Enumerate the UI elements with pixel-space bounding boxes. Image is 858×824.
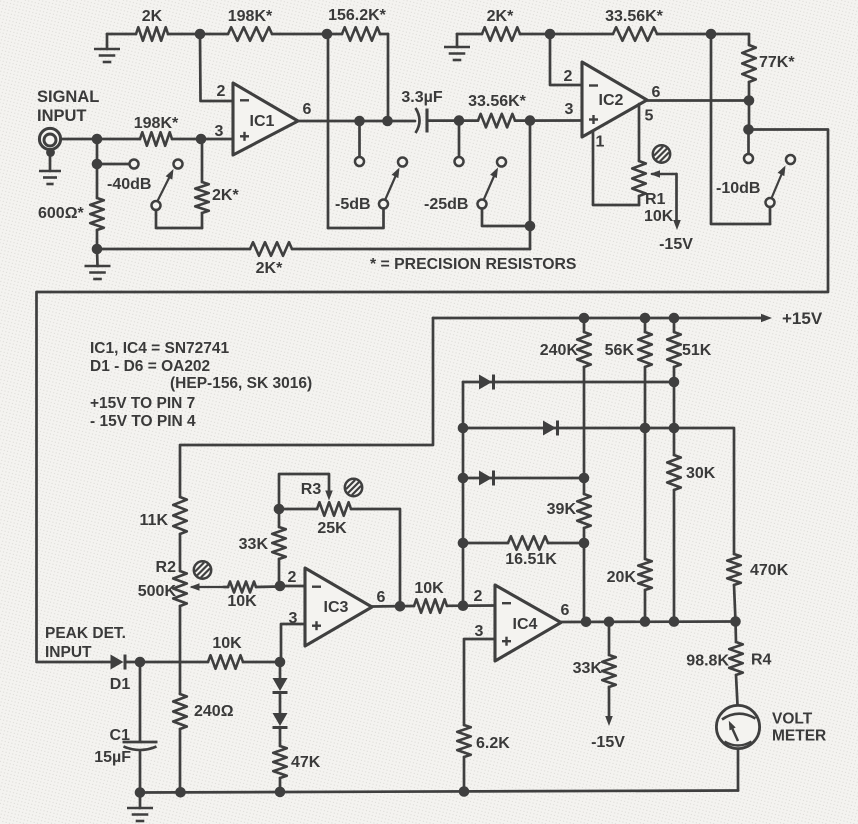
node out/39K	[581, 617, 592, 628]
resistor 10K (R2 wiper)	[224, 582, 280, 611]
node 56K top	[640, 313, 651, 324]
pin 3 label IC3	[289, 610, 298, 627]
label -15V (R1)	[659, 236, 693, 253]
pin 2 label IC4	[474, 588, 483, 605]
wire 11K to R2	[179, 534, 182, 571]
wire R2 to 240ohm	[179, 606, 182, 694]
diode D4	[479, 471, 494, 486]
wire diode ladder column	[462, 382, 465, 606]
ground (600ohm)	[85, 249, 111, 279]
svg-text:56K: 56K	[605, 342, 635, 359]
node row1/51K	[669, 377, 680, 388]
svg-text:R3: R3	[301, 481, 322, 498]
svg-text:33K: 33K	[239, 536, 269, 553]
node IC4 pin2	[458, 600, 469, 611]
svg-text:D1 - D6 = OA202: D1 - D6 = OA202	[90, 358, 210, 375]
svg-text:SIGNAL: SIGNAL	[37, 88, 99, 106]
ground (signal input)	[39, 171, 61, 184]
ground (top-left)	[94, 34, 120, 62]
resistor 33.56K* (signal)	[468, 93, 527, 127]
svg-text:R1: R1	[645, 191, 666, 208]
node row3/240K	[579, 473, 590, 484]
svg-text:198K*: 198K*	[134, 115, 179, 132]
wire IC3 pin 2	[280, 585, 305, 588]
svg-text:PEAK DET.: PEAK DET.	[45, 625, 126, 642]
wire to lower section	[37, 130, 829, 663]
pin 3 label IC2	[565, 101, 574, 118]
wire IC3 pin 3	[281, 624, 305, 662]
svg-text:INPUT: INPUT	[45, 644, 92, 661]
pin 6 label IC3	[377, 589, 386, 606]
switch -25dB	[424, 121, 530, 226]
wire IC1 output row	[298, 120, 415, 123]
svg-text:VOLT: VOLT	[772, 711, 813, 728]
svg-text:240K: 240K	[540, 342, 579, 359]
switch -40dB	[97, 160, 202, 229]
node out/30K	[669, 616, 680, 627]
svg-text:25K: 25K	[317, 520, 347, 537]
svg-text:2K*: 2K*	[212, 187, 239, 204]
svg-text:6.2K: 6.2K	[476, 735, 510, 752]
resistor 51K	[667, 318, 712, 455]
potentiometer R3 25K	[279, 474, 400, 606]
wire 156.2K to IC1 output	[387, 34, 390, 121]
svg-text:IC1, IC4 = SN72741: IC1, IC4 = SN72741	[90, 340, 230, 357]
ground (bottom rail)	[127, 793, 153, 822]
pin 1 label IC2	[596, 134, 605, 151]
node pin3/2K junction	[196, 134, 207, 145]
label PEAK DET INPUT	[45, 625, 126, 661]
svg-text:2: 2	[474, 588, 483, 605]
wire IC3 output	[372, 605, 414, 608]
svg-text:6: 6	[652, 84, 661, 101]
pin 6 label IC1	[303, 101, 312, 118]
svg-text:* = PRECISION RESISTORS: * = PRECISION RESISTORS	[370, 256, 576, 273]
node 240K top	[579, 313, 590, 324]
svg-text:(HEP-156, SK 3016): (HEP-156, SK 3016)	[170, 375, 312, 392]
node 2K/198K junction	[195, 29, 206, 40]
ground (IC2 input)	[444, 34, 470, 60]
svg-text:IC3: IC3	[324, 599, 349, 616]
svg-text:+15V: +15V	[782, 309, 823, 328]
wire top feedback rail	[107, 33, 388, 36]
svg-text:R4: R4	[751, 652, 772, 669]
op-amp IC2	[582, 62, 647, 137]
label SIGNAL INPUT	[37, 88, 99, 125]
svg-text:10K: 10K	[414, 580, 444, 597]
svg-text:-5dB: -5dB	[335, 196, 371, 213]
wire cap to IC2 pin 3	[427, 119, 582, 122]
volt meter	[716, 705, 826, 748]
wire diode row 1	[463, 381, 674, 384]
pin 3 label IC4	[475, 623, 484, 640]
wire meter to rail	[737, 749, 740, 791]
pin 2 label IC2	[564, 68, 573, 85]
svg-text:500K: 500K	[138, 583, 177, 600]
node -25dB loop junction	[525, 221, 536, 232]
svg-text:-10dB: -10dB	[716, 180, 760, 197]
svg-text:1: 1	[596, 134, 605, 151]
node -5dB tap	[354, 116, 365, 127]
node out/33K	[604, 617, 615, 628]
wire IC2 pin 1	[593, 131, 639, 205]
resistor 20K	[607, 559, 652, 622]
pin 6 label IC2	[652, 84, 661, 101]
resistor 2K	[136, 8, 168, 41]
switch -10dB	[716, 130, 795, 225]
op-amp IC4	[495, 585, 561, 661]
node 77K/output junction	[744, 95, 755, 106]
wire IC2 top rail	[457, 33, 749, 36]
svg-text:6: 6	[377, 589, 386, 606]
capacitor 3.3uF	[401, 89, 442, 133]
resistor 2K* (IC2)	[482, 8, 520, 41]
node D1/C1	[135, 657, 146, 668]
wire 6.2K to rail	[463, 757, 466, 792]
resistor 198K* (input)	[134, 115, 179, 146]
resistor 240K	[540, 318, 591, 478]
svg-text:2: 2	[217, 83, 226, 100]
node output/-10dB pendant	[743, 124, 754, 135]
svg-text:470K: 470K	[750, 562, 789, 579]
resistor 600ohm*	[38, 198, 104, 230]
svg-text:30K: 30K	[686, 465, 716, 482]
node -40dB tap	[92, 159, 103, 170]
node 6.2K bottom	[459, 786, 470, 797]
svg-text:3: 3	[565, 101, 574, 118]
wire 600ohm column	[96, 139, 99, 249]
wire IC4 output row	[561, 620, 736, 623]
svg-text:240Ω: 240Ω	[194, 703, 234, 720]
resistor 156.2K*	[328, 7, 387, 41]
pin 6 label IC4	[561, 602, 570, 619]
diode D6	[273, 694, 288, 728]
svg-text:33.56K*: 33.56K*	[605, 8, 664, 25]
node 33K top / R3	[274, 504, 285, 515]
svg-text:2K*: 2K*	[487, 8, 514, 25]
node row3 left	[458, 473, 469, 484]
note text	[90, 340, 312, 430]
wire 10K to IC3 pin3 node	[243, 661, 280, 664]
svg-text:IC2: IC2	[599, 92, 624, 109]
svg-text:INPUT: INPUT	[37, 107, 87, 125]
op-amp IC1	[233, 83, 298, 155]
wire IC1 pin 2	[200, 34, 233, 101]
wire +15V rail	[433, 309, 823, 328]
resistor 30K	[667, 455, 716, 622]
svg-text:- 15V TO PIN 4: - 15V TO PIN 4	[90, 413, 196, 430]
node 33.56K/-10dB column	[706, 29, 717, 40]
wire rail to 11K elbow	[180, 318, 433, 497]
svg-text:20K: 20K	[607, 569, 637, 586]
svg-text:16.51K: 16.51K	[505, 551, 557, 568]
svg-text:C1: C1	[110, 727, 131, 744]
wire IC2 pin 2	[550, 34, 582, 85]
svg-text:98.8K: 98.8K	[686, 653, 729, 670]
svg-text:METER: METER	[772, 728, 826, 745]
wire IC2 output	[647, 99, 749, 102]
resistor 240ohm	[173, 694, 233, 729]
node C1 bottom	[135, 787, 146, 798]
wire bottom attenuator rail	[97, 248, 530, 251]
node 600ohm bottom	[92, 244, 103, 255]
svg-text:R2: R2	[156, 559, 177, 576]
svg-text:10K: 10K	[644, 208, 674, 225]
resistor 10K (peak det)	[208, 635, 243, 669]
node IC3 pin2	[275, 581, 286, 592]
resistor 198K* (feedback)	[228, 8, 273, 41]
node 47K bottom	[275, 787, 286, 798]
resistor 33K (IC4 out)	[573, 622, 626, 751]
wire diode row 2	[463, 428, 734, 554]
resistor 10K (IC3-IC4)	[414, 580, 447, 613]
svg-text:33K: 33K	[573, 660, 603, 677]
svg-text:6: 6	[303, 101, 312, 118]
svg-text:198K*: 198K*	[228, 8, 273, 25]
svg-text:6: 6	[561, 602, 570, 619]
node 51K top	[669, 313, 680, 324]
node out/20K	[640, 616, 651, 627]
svg-text:-15V: -15V	[659, 236, 693, 253]
node 240ohm bottom	[175, 787, 186, 798]
label precision resistors	[370, 256, 576, 273]
resistor 47K	[273, 729, 321, 792]
wire -5dB loop column	[327, 34, 330, 228]
wire signal input row	[61, 138, 234, 141]
wire diode row 3	[463, 477, 584, 480]
svg-text:10K: 10K	[227, 593, 257, 610]
resistor 56K	[605, 318, 652, 559]
svg-text:77K*: 77K*	[759, 54, 795, 71]
svg-text:2: 2	[564, 68, 573, 85]
resistor 77K*	[742, 34, 795, 101]
wire D1 node to 10K	[126, 661, 208, 664]
potentiometer R1 10K	[632, 104, 681, 230]
resistor 2K* (input divider)	[195, 139, 239, 228]
wire 16.51K row	[463, 542, 584, 545]
pin 2 label IC1	[217, 83, 226, 100]
node row2 left	[458, 423, 469, 434]
diode D5	[273, 662, 288, 693]
node 16.51K left	[458, 538, 469, 549]
svg-text:600Ω*: 600Ω*	[38, 205, 85, 222]
resistor 2K* (bottom)	[250, 242, 292, 277]
pin 2 label IC3	[288, 569, 297, 586]
trimmer mark R2	[194, 561, 211, 578]
diode D2	[479, 375, 494, 390]
node 33.56K/-25dB loop	[525, 115, 536, 126]
node out/R4	[730, 616, 741, 627]
node 198K/156.2K junction	[322, 29, 333, 40]
svg-text:11K: 11K	[140, 512, 169, 529]
node 16.51K right	[579, 538, 590, 549]
svg-text:33.56K*: 33.56K*	[468, 93, 527, 110]
resistor 39K	[547, 478, 591, 621]
node -25dB tap	[454, 115, 465, 126]
node 2K/33.56K junction	[545, 29, 556, 40]
svg-text:+15V TO PIN 7: +15V TO PIN 7	[90, 395, 195, 412]
svg-text:47K: 47K	[291, 754, 321, 771]
resistor 470K	[727, 554, 788, 622]
switch -5dB	[328, 121, 407, 228]
trimmer mark R1	[653, 145, 670, 162]
node signal/600ohm	[92, 134, 103, 145]
wire bottom ground rail	[140, 791, 738, 793]
svg-text:5: 5	[645, 108, 654, 125]
svg-text:-15V: -15V	[591, 734, 625, 751]
resistor 11K	[140, 497, 187, 534]
svg-text:-40dB: -40dB	[107, 176, 151, 193]
svg-text:39K: 39K	[547, 501, 577, 518]
svg-text:2K*: 2K*	[256, 260, 283, 277]
op-amp IC3	[305, 568, 372, 646]
svg-text:3: 3	[215, 123, 224, 140]
svg-text:IC4: IC4	[513, 616, 538, 633]
wire -10dB column	[711, 34, 770, 224]
wire output down	[748, 101, 751, 130]
svg-text:-25dB: -25dB	[424, 196, 468, 213]
svg-text:IC1: IC1	[250, 113, 275, 130]
wire -25dB loop to bottom rail	[529, 121, 532, 249]
wire 240ohm to rail	[179, 729, 182, 792]
diode D3	[543, 421, 558, 436]
resistor 33.56K* (IC2 feedback)	[605, 8, 664, 41]
resistor 16.51K	[505, 536, 557, 568]
node row2/51K	[669, 423, 680, 434]
svg-text:156.2K*: 156.2K*	[328, 7, 387, 24]
node 156.2K/output junction	[382, 116, 393, 127]
capacitor C1 15uF	[94, 662, 157, 793]
trimmer mark R3	[345, 479, 362, 496]
svg-text:10K: 10K	[212, 635, 242, 652]
resistor 33K (IC3)	[239, 509, 286, 586]
resistor R4 98.8K	[686, 622, 771, 706]
svg-text:3: 3	[475, 623, 484, 640]
wire 10K to IC4 pin 2	[447, 604, 495, 607]
svg-text:15µF: 15µF	[94, 749, 131, 766]
wire IC4 pin 3	[464, 639, 495, 725]
node IC3 output/R3	[395, 601, 406, 612]
svg-text:2: 2	[288, 569, 297, 586]
node row2/56K	[640, 423, 651, 434]
svg-text:3.3µF: 3.3µF	[401, 89, 442, 106]
pin 3 label IC1	[215, 123, 224, 140]
signal input jack	[39, 128, 60, 171]
svg-text:51K: 51K	[682, 342, 712, 359]
resistor 6.2K	[457, 725, 510, 757]
pin 5 label IC2	[645, 108, 654, 125]
svg-text:2K: 2K	[142, 8, 163, 25]
svg-text:D1: D1	[110, 676, 131, 693]
potentiometer R2 500K	[138, 559, 224, 606]
diode D1	[110, 655, 131, 694]
node IC3 pin3/diodes	[275, 657, 286, 668]
